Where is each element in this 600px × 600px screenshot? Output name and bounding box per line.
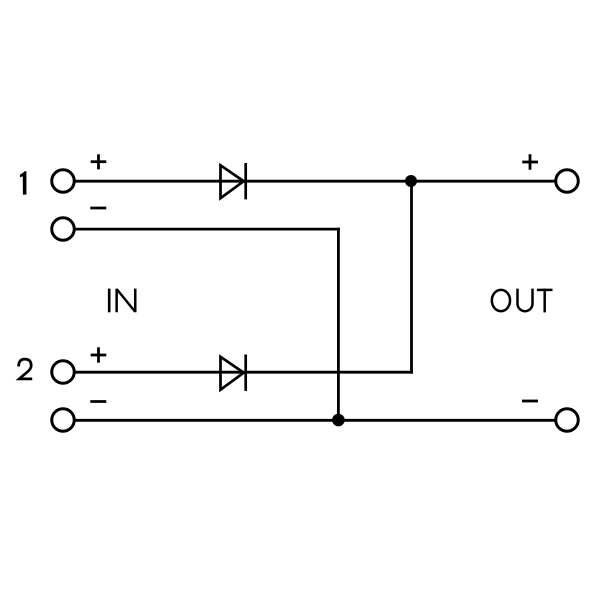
terminal OUT+ — [556, 170, 579, 193]
wire input1- horizontal — [75, 228, 340, 231]
node A junction dot — [405, 175, 417, 187]
diode D2 — [221, 355, 246, 391]
wire input2- to OUT- — [75, 419, 555, 422]
plus sign OUT — [522, 154, 538, 169]
label OUT : letter T — [537, 289, 553, 313]
label OUT : letter U — [518, 289, 533, 312]
terminal 1- — [52, 218, 75, 241]
plus sign input 2 — [91, 347, 107, 362]
label 1 — [20, 171, 26, 194]
terminal OUT- — [556, 409, 579, 432]
node B junction dot — [332, 414, 345, 427]
label IN : letter I — [108, 289, 111, 313]
minus sign OUT — [522, 400, 538, 403]
minus sign input 1 — [90, 207, 106, 210]
terminal 1+ — [52, 170, 75, 193]
label IN : letter N — [115, 289, 136, 313]
label 2 — [19, 359, 33, 379]
wire input1+ to OUT+ — [75, 180, 555, 183]
plus sign input 1 — [91, 154, 107, 169]
terminal 2+ — [52, 361, 75, 384]
minus sign input 2 — [90, 400, 106, 403]
wire input2+ vertical up to node A — [410, 181, 413, 373]
label OUT : letter O — [492, 290, 510, 311]
diode D1 — [221, 163, 246, 199]
wire input1- vertical down to node B — [337, 228, 340, 421]
terminal 2- — [52, 409, 75, 432]
wire input2+ horizontal — [75, 371, 413, 374]
